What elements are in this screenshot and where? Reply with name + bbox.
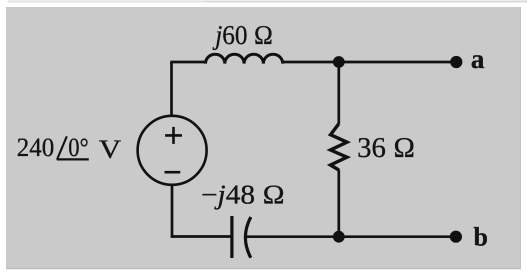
- svg-text:a: a: [471, 43, 485, 74]
- capacitor C1 -j48: right curved plate: [245, 217, 250, 258]
- svg-text:b: b: [474, 223, 488, 252]
- wire: top horizontal left segment: [170, 61, 206, 64]
- wire: right vertical top (node to resistor): [337, 62, 340, 124]
- svg-text:36 Ω: 36 Ω: [357, 133, 415, 164]
- wire: right vertical bottom (resistor to node): [337, 170, 340, 237]
- svg-text:240: 240: [17, 133, 55, 162]
- svg-text:V: V: [99, 134, 121, 164]
- resistor R1 36 zigzag: [331, 124, 348, 170]
- wire: from source bottom down to bottom rail: [171, 185, 174, 238]
- wire: bottom rail right of capacitor to terminal b: [246, 235, 456, 238]
- wire: top-left vertical from top wire to source: [170, 62, 173, 116]
- svg-text:0°: 0°: [68, 133, 88, 162]
- terminal b dot: [450, 231, 462, 243]
- svg-text:j60 Ω: j60 Ω: [212, 20, 273, 50]
- svg-text:−j48 Ω: −j48 Ω: [201, 179, 285, 209]
- plus sign inside source: [165, 134, 182, 137]
- node junction dot (top, node between L and R): [333, 56, 345, 68]
- terminal a dot: [450, 56, 462, 68]
- voltage source VS1: [138, 116, 207, 185]
- capacitor C1 -j48: left plate: [230, 216, 233, 258]
- minus sign inside source: [165, 171, 181, 174]
- wire: bottom rail left of capacitor: [171, 235, 232, 238]
- node junction dot (bottom): [333, 231, 345, 243]
- inductor L1 j60: [206, 54, 283, 63]
- wire: top horizontal right segment to terminal a: [282, 61, 457, 64]
